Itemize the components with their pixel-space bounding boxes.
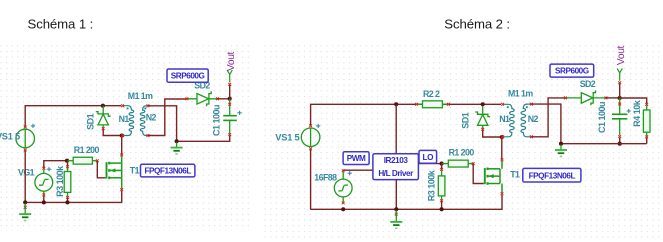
polarity + of VS1	[31, 124, 35, 128]
voltage source VS1 (5V)	[301, 124, 320, 150]
ground output side	[555, 145, 567, 157]
node J2 junction VG1/R1/R3	[65, 159, 69, 163]
wire VS1+ top rail to transformer N1	[311, 104, 501, 125]
driver IC IR2103	[373, 154, 419, 180]
capacitor C1 100u	[223, 99, 237, 136]
wire T1 source to bottom rail to VS1-	[25, 151, 122, 203]
svg-text:R3 100k: R3 100k	[55, 165, 65, 197]
resistor R1 200	[68, 157, 99, 164]
net label LO	[419, 150, 437, 163]
MOSFET T1	[105, 154, 123, 191]
generator VG1 (gate drive)	[35, 167, 53, 196]
svg-text:Vout: Vout	[616, 45, 627, 65]
wire node F down to T1 drain	[501, 137, 503, 159]
wire SD1 anode to node F	[483, 130, 501, 137]
wire VG1+ to node J2	[44, 161, 66, 168]
ground main (schema 1)	[19, 203, 31, 220]
wire N2- to SD2 anode	[148, 99, 187, 136]
ground driver side	[390, 210, 402, 228]
svg-text:C1 100u: C1 100u	[597, 102, 607, 133]
svg-text:VG1: VG1	[18, 167, 35, 177]
node E junction rail / SD1	[481, 102, 485, 106]
wire SD2 cathode to node H	[606, 97, 620, 99]
svg-text:SD1: SD1	[85, 113, 95, 130]
output pin Vout	[616, 45, 627, 98]
svg-text:N1: N1	[119, 114, 130, 124]
svg-text:VS1 5: VS1 5	[275, 133, 299, 143]
resistor R4 10k	[643, 103, 650, 144]
rectifier diode SD2	[186, 91, 219, 106]
svg-text:FPQF13N06L: FPQF13N06L	[144, 167, 191, 176]
wire SD1 anode to node B	[103, 130, 120, 136]
wire secondary ground rail	[561, 143, 647, 145]
wire C1- to ground rail	[619, 138, 621, 144]
svg-text:C1 100u: C1 100u	[211, 105, 221, 136]
polarity + of VG1	[47, 167, 51, 171]
wire R1 to T1 gate	[97, 161, 105, 178]
net label PWM	[343, 152, 369, 165]
svg-text:SD2: SD2	[580, 79, 596, 89]
wire SD2 cathode to node D	[217, 98, 229, 100]
transformer M1 primary winding N1	[121, 104, 133, 137]
svg-text:SRP600G: SRP600G	[171, 72, 205, 81]
resistor R2 2	[415, 101, 450, 108]
svg-text:Vout: Vout	[226, 51, 237, 71]
wire node H to R4	[620, 98, 647, 103]
svg-text:IR2103: IR2103	[384, 156, 409, 165]
svg-text:SRP600G: SRP600G	[555, 67, 589, 76]
svg-text:T1: T1	[130, 166, 140, 176]
node rail IR2103 ground	[394, 207, 398, 211]
capacitor C1 100u	[612, 98, 627, 138]
polarity + of VS1	[316, 124, 320, 128]
node B junction N1- / drain	[120, 133, 124, 137]
wire Vcc to IR2103	[395, 104, 397, 153]
node D output junction	[228, 97, 232, 101]
svg-text:LO: LO	[423, 153, 435, 162]
svg-text:N1: N1	[499, 114, 510, 124]
wire N2+ to output ground node G	[532, 104, 561, 143]
svg-text:PWM: PWM	[347, 154, 366, 163]
wire 16F88 out to IR2103 input	[343, 169, 373, 171]
svg-text:T1: T1	[510, 169, 520, 179]
ground output side	[171, 142, 183, 154]
node rail 16F88	[341, 207, 345, 211]
part label FPQF13N06L	[523, 168, 581, 182]
node C junction secondary ground	[175, 139, 179, 143]
node rail R3	[440, 207, 444, 211]
wire C1- to node C	[178, 136, 230, 142]
part label SRP600G	[550, 64, 594, 77]
svg-text:Schéma 2 :: Schéma 2 :	[444, 17, 510, 32]
node Vcc junction rail / IR2103 supply	[394, 102, 398, 106]
part label FPQF13N06L	[141, 164, 195, 177]
svg-text:H/L Driver: H/L Driver	[378, 169, 414, 178]
svg-text:SD1: SD1	[460, 112, 470, 129]
node rail VS1	[23, 200, 27, 204]
polarity + of C1	[238, 111, 242, 115]
svg-text:M1 1m: M1 1m	[128, 91, 153, 101]
polarity + of C1	[627, 109, 631, 113]
part label SRP600G	[167, 69, 208, 82]
wire VG1- to bottom rail	[43, 196, 45, 203]
node I junction C1- rail	[618, 142, 622, 146]
node G junction secondary ground	[559, 142, 563, 146]
transformer M1 secondary winding N2	[521, 103, 533, 139]
node A junction top rail / SD1	[101, 104, 105, 108]
diode SD1 (schottky, freewheel)	[96, 106, 111, 130]
node rail R3	[65, 200, 69, 204]
rectifier diode SD2	[564, 90, 607, 105]
wire IR2103 ground to rail	[395, 180, 397, 210]
svg-text:R1 200: R1 200	[449, 147, 475, 157]
svg-text:VS1 5: VS1 5	[0, 132, 20, 142]
node F junction N1- / drain	[500, 135, 504, 139]
wire N2- to SD2 anode	[532, 98, 566, 137]
diode SD1 (schottky, freewheel)	[475, 106, 490, 131]
transformer M1 secondary winding N2	[140, 104, 149, 136]
svg-text:N2: N2	[146, 112, 157, 122]
resistor R3 100k	[438, 164, 445, 209]
svg-text:R1 200: R1 200	[74, 145, 100, 155]
resistor R3 100k	[64, 161, 71, 202]
wire IR2103 LO output to node J	[418, 163, 440, 165]
node H output junction	[618, 96, 622, 100]
generator 16F88 (PWM source)	[334, 169, 352, 204]
wire node B down to T1 drain	[121, 136, 123, 155]
svg-text:Schéma 1 :: Schéma 1 :	[28, 17, 94, 32]
wire N2+ to output ground node C	[148, 106, 176, 141]
wire R1 to T1 gate	[473, 164, 483, 184]
svg-text:R3 100k: R3 100k	[426, 169, 436, 201]
svg-text:M1 1m: M1 1m	[508, 88, 533, 98]
svg-text:N2: N2	[528, 114, 539, 124]
svg-text:FPQF13N06L: FPQF13N06L	[529, 171, 576, 180]
wire T1 source to bottom rail to VS1-	[310, 150, 502, 210]
transformer M1 primary winding N1	[501, 103, 514, 138]
svg-text:R4 10k: R4 10k	[632, 99, 642, 127]
polarity + of 16F88	[348, 171, 352, 175]
node J junction LO/R1/R3	[440, 162, 444, 166]
wire VS1+ top rail to transformer N1	[25, 106, 121, 127]
MOSFET T1	[483, 159, 503, 196]
resistor R1 200	[442, 160, 475, 167]
svg-text:16F88: 16F88	[314, 172, 337, 182]
output pin Vout	[226, 51, 237, 98]
voltage source VS1 (5V)	[16, 126, 35, 152]
svg-text:R2 2: R2 2	[423, 89, 440, 99]
node rail VG1	[42, 200, 46, 204]
